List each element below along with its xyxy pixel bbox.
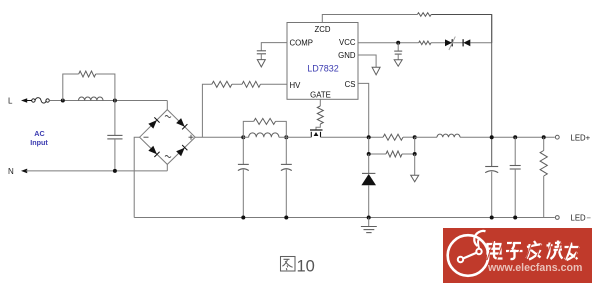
wire D6 to rail bbox=[368, 185, 370, 217]
wire GATE bbox=[319, 99, 321, 106]
capacitor C7 bbox=[510, 137, 521, 217]
fuse F1 bbox=[32, 98, 50, 103]
svg-text:LED+: LED+ bbox=[571, 133, 591, 142]
ground COMP arrow bbox=[257, 60, 265, 67]
node R8 right bbox=[413, 135, 417, 139]
node D6 bottom bbox=[367, 216, 371, 220]
node bus rail bbox=[490, 135, 494, 139]
diode BD1-D1 (left-top edge) bbox=[148, 117, 159, 128]
resistor R10 bbox=[540, 137, 547, 217]
svg-text:LED: LED bbox=[571, 214, 587, 223]
resistor R8 bbox=[383, 134, 403, 140]
resistor R2 bbox=[212, 81, 232, 87]
node L-fuse junction bbox=[61, 99, 65, 103]
inductor L2 bbox=[249, 133, 279, 137]
wire N line bbox=[26, 170, 167, 172]
node C4 bottom bbox=[241, 216, 245, 220]
watermark red hatch over text bbox=[487, 240, 581, 260]
wire bottom rail GND bbox=[134, 217, 555, 219]
svg-text:AC: AC bbox=[34, 129, 44, 138]
terminal N bbox=[8, 167, 27, 176]
watermark logo circle bbox=[448, 231, 489, 276]
ground VCC arrow bbox=[394, 60, 402, 66]
svg-text:COMP: COMP bbox=[290, 39, 313, 48]
capacitor C3 bbox=[394, 43, 402, 60]
wire CS bbox=[358, 83, 369, 137]
svg-text:CS: CS bbox=[345, 80, 356, 89]
ground GND-pin arrow bbox=[372, 67, 380, 75]
node sense right bbox=[413, 152, 417, 156]
wire VCC bbox=[358, 42, 492, 44]
svg-text:HV: HV bbox=[290, 81, 302, 90]
wire ZCD bbox=[322, 15, 417, 23]
terminal LED- bbox=[555, 214, 590, 223]
diode BD1-D3 (left-bottom edge) bbox=[148, 146, 159, 157]
inductor L1 bbox=[79, 97, 104, 101]
capacitor C5 bbox=[281, 137, 292, 217]
terminal LED+ bbox=[555, 133, 590, 142]
node C7 top bbox=[513, 135, 517, 139]
wire L3 to output bbox=[460, 136, 555, 138]
capacitor C4 bbox=[238, 137, 249, 217]
wire HV branch bbox=[202, 84, 287, 137]
node sense left bbox=[367, 152, 371, 156]
wire ZCD to bus bbox=[431, 15, 492, 44]
resistor R5 bbox=[419, 41, 431, 45]
svg-text:GATE: GATE bbox=[310, 91, 331, 100]
svg-text:www.elecfans.com: www.elecfans.com bbox=[487, 262, 582, 274]
node R10 top bbox=[542, 135, 546, 139]
caption figure 10 bbox=[281, 257, 296, 272]
svg-text:ZCD: ZCD bbox=[314, 25, 330, 34]
node rail-filter right bbox=[284, 135, 288, 139]
watermark elecfans banner bbox=[443, 228, 592, 283]
node C5 bottom bbox=[284, 216, 288, 220]
node rail-filter left bbox=[241, 135, 245, 139]
op-amp U1 LD7832 body bbox=[287, 23, 358, 100]
node C6 bottom bbox=[490, 216, 494, 220]
node L-filter junction bbox=[113, 99, 117, 103]
transistor Q1 bbox=[310, 124, 323, 137]
wire C2 to ground bbox=[260, 54, 262, 60]
diode D6 bbox=[361, 173, 376, 185]
diode BD1-D4 (bottom-right edge) bbox=[176, 145, 187, 156]
wire sense lower branch bbox=[369, 137, 415, 154]
wire sense to ground bbox=[414, 154, 416, 175]
capacitor C6 bbox=[485, 167, 498, 218]
diode D5 bbox=[463, 39, 470, 46]
watermark text dianzifashaoyou bbox=[488, 241, 580, 261]
node N-C1 junction bbox=[113, 169, 117, 173]
wire bridge negative drop bbox=[134, 137, 139, 217]
svg-text:LD7832: LD7832 bbox=[307, 64, 339, 74]
svg-text:L: L bbox=[8, 96, 13, 105]
svg-text:VCC: VCC bbox=[339, 38, 356, 47]
wire rail filter to Q1 bbox=[286, 136, 311, 138]
node CS rail bbox=[367, 135, 371, 139]
wire bridge top riser bbox=[166, 101, 168, 110]
resistor R4 bbox=[417, 13, 431, 17]
text AC Input bbox=[30, 129, 48, 147]
ground sense arrow bbox=[411, 175, 419, 182]
resistor R1 bbox=[79, 71, 96, 77]
wire R8 right bbox=[403, 136, 415, 138]
resistor R9 bbox=[386, 151, 402, 157]
svg-text:N: N bbox=[8, 167, 14, 176]
terminal L bbox=[8, 96, 32, 105]
wire bypass loop bbox=[63, 74, 115, 101]
wire L line bbox=[49, 100, 167, 102]
wire COMP bbox=[261, 43, 287, 51]
bridge polarity marks bbox=[144, 116, 194, 158]
zener ZD1 bbox=[445, 37, 455, 50]
ground earth symbol bbox=[361, 218, 377, 233]
wire right bus bbox=[491, 15, 493, 167]
wire rail to L3 bbox=[415, 136, 437, 138]
capacitor C1 bbox=[107, 101, 122, 171]
svg-text:10: 10 bbox=[297, 258, 315, 276]
wire DC rail bridge to filter bbox=[195, 136, 243, 138]
wire CS node down bbox=[368, 154, 370, 173]
bridge rectifier BD1 bbox=[140, 110, 196, 165]
wire filter loop bbox=[243, 121, 286, 137]
wire bridge bottom riser bbox=[166, 164, 168, 171]
svg-text:Input: Input bbox=[30, 138, 48, 147]
node C7 bottom bbox=[513, 216, 517, 220]
diode BD1-D2 (top-right edge) bbox=[176, 118, 187, 129]
capacitor C2 bbox=[257, 51, 266, 54]
wire GND pin bbox=[358, 55, 376, 67]
resistor R6 bbox=[254, 118, 276, 124]
inductor L3 bbox=[437, 134, 460, 137]
svg-text:GND: GND bbox=[338, 51, 356, 60]
resistor R7 bbox=[317, 106, 323, 124]
wire Q1 to CS node bbox=[321, 136, 384, 138]
resistor R3 bbox=[242, 81, 260, 87]
node VCC junction bbox=[396, 41, 400, 45]
